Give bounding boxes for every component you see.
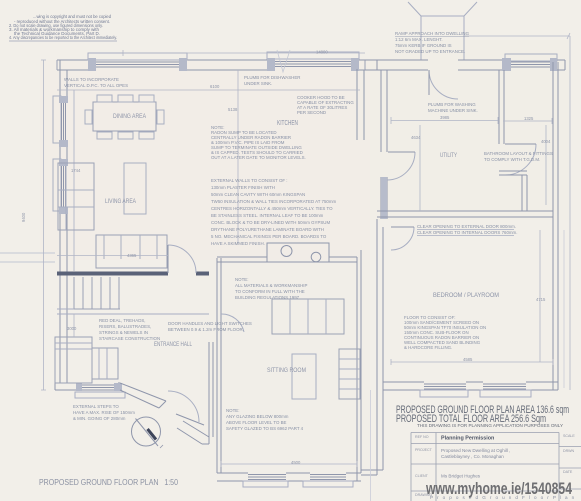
svg-text:5 NO. MECHANICAL FIXINGS PER B: 5 NO. MECHANICAL FIXINGS PER BOARD. BOAR… [211,234,327,239]
dim 4585 [391,359,553,365]
right vertical dim [569,36,571,390]
stairs lower flight [55,337,118,383]
svg-text:PER SECOND: PER SECOND [297,110,326,115]
dim 4715 vertical [539,230,541,362]
svg-text:& HARDCORE FILLING.: & HARDCORE FILLING. [404,345,452,350]
svg-text:50mm CLEAN CAVITY WITH 60mm KI: 50mm CLEAN CAVITY WITH 60mm KINGSPAN [211,192,305,197]
svg-text:NOTE:: NOTE: [235,277,248,282]
corridor south wall [361,390,383,475]
svg-text:3000: 3000 [67,326,77,331]
svg-text:CLEAR OPENING TO INTERNAL DOOR: CLEAR OPENING TO INTERNAL DOORS 760mm. [417,230,517,235]
sitting sofa [272,299,344,334]
svg-text:TW50 INSULATION & WALL TIES IN: TW50 INSULATION & WALL TIES INCORPORATED… [211,199,336,204]
bedroom bottom wall [383,382,558,397]
svg-text:BE STAINLESS STEEL. INTERNAL L: BE STAINLESS STEEL. INTERNAL LEAF TO BE … [211,213,324,218]
dark wall living/hall [57,272,168,276]
stair dim 3000 vertical [73,314,75,337]
entrance door arc [429,70,458,99]
svg-text:DATE: DATE [563,470,573,474]
svg-text:4634: 4634 [411,135,421,140]
dim 1325 [503,118,552,124]
svg-text:www.myhome.ie/1540854: www.myhome.ie/1540854 [425,479,572,498]
svg-text:5138: 5138 [228,107,238,112]
bench row under living [96,235,167,268]
svg-text:RAMP APPROACH INTO DWELLING: RAMP APPROACH INTO DWELLING [395,31,470,36]
svg-text:THIS DRAWING IS FOR PLANNING A: THIS DRAWING IS FOR PLANNING APPLICATION… [417,423,564,429]
svg-text:& MIN. GOING OF 280mm: & MIN. GOING OF 280mm [73,416,126,421]
svg-text:4365: 4365 [127,253,137,258]
utility bottom wall [377,211,553,217]
svg-text:EXTERNAL STEPS TO: EXTERNAL STEPS TO [73,404,119,409]
svg-text:ANY GLAZING BELOW 800mm: ANY GLAZING BELOW 800mm [226,414,289,419]
extension west wall [381,70,415,219]
door arc hall/sitting [221,314,244,332]
svg-text:NOT GRADED UP TO ENTRANCE.: NOT GRADED UP TO ENTRANCE. [395,49,465,54]
L wall [499,171,527,211]
svg-text:DOOR HANDLES AND LIGHT SWITCHE: DOOR HANDLES AND LIGHT SWITCHES [168,321,252,326]
utility window [505,54,557,61]
sitting room top wall [217,257,357,262]
svg-text:NOTE:: NOTE: [226,408,239,413]
svg-text:3985: 3985 [440,115,450,120]
svg-text:Castleblayney , Co. Monaghan: Castleblayney , Co. Monaghan [441,454,504,459]
svg-text:1:12 6m MAX. LENGHT.: 1:12 6m MAX. LENGHT. [395,37,443,42]
svg-text:BATHROOM LAYOUT & FITTINGS: BATHROOM LAYOUT & FITTINGS [484,151,553,156]
main building top wall [57,52,365,71]
dim 3985 [391,117,498,124]
front door leaf [176,414,204,425]
svg-text:CENTRES HORIZONTALLY & 450mm V: CENTRES HORIZONTALLY & 450mm VERTICALLY.… [211,206,333,211]
svg-text:4. Any discrepancies to be re: 4. Any discrepancies to be reported to t… [9,35,117,40]
main building left wall [0,60,74,383]
dim 4634 vertical [419,125,421,211]
svg-text:130mm PLASTER FINISH WITH: 130mm PLASTER FINISH WITH [211,185,275,190]
V mark top [277,50,290,72]
svg-text:RISERS, BALUSTRADES,: RISERS, BALUSTRADES, [99,324,151,329]
north arrow [132,417,164,448]
svg-text:VERTICAL D.P.C. TO ALL OPES: VERTICAL D.P.C. TO ALL OPES [64,83,128,88]
chimney breast [267,243,329,262]
dim 4004 vertical [545,125,547,205]
dim 4500 [221,461,357,467]
svg-text:SCALE: SCALE [563,434,575,438]
window 1 [53,96,61,143]
sitting room bottom wall [217,473,361,487]
clear opening note underlines [417,230,514,236]
svg-text:BUILDING REGULATIONS 1997: BUILDING REGULATIONS 1997 [235,295,300,300]
svg-text:4004: 4004 [541,139,551,144]
svg-text:DRYTHANE POLYURETHANE LAMINATE: DRYTHANE POLYURETHANE LAMINATE BOARD WIT… [211,227,324,232]
svg-text:Proposed New Dwelling at Oghil: Proposed New Dwelling at Oghill , [441,448,510,453]
door arc living [168,245,196,273]
bathroom door arc [505,144,536,175]
extension top dim [464,33,570,39]
svg-text:ALL MATERIALS & WORKMANSHIP: ALL MATERIALS & WORKMANSHIP [235,283,308,288]
svg-text:SAFETY GLAZED TO BS 6962 PART: SAFETY GLAZED TO BS 6962 PART 4 [226,426,304,431]
dining table [93,102,156,131]
svg-text:1325: 1325 [524,116,534,121]
dining window glazing [96,62,179,67]
svg-text:Planning Permission: Planning Permission [441,436,494,442]
kitchen window sill [267,52,359,59]
bedroom door arc [391,227,414,250]
bathroom partition [499,70,536,211]
porch left diagonal wall [120,383,166,408]
svg-text:9400: 9400 [21,212,26,222]
svg-text:4500: 4500 [291,460,301,465]
svg-text:TO COMPLY WITH T.G.D.M.: TO COMPLY WITH T.G.D.M. [484,157,540,162]
svg-text:ENTRANCE HALL: ENTRANCE HALL [154,341,192,348]
svg-text:LIVING AREA: LIVING AREA [105,198,137,205]
utility door arc [387,152,415,180]
svg-text:1744: 1744 [71,168,81,173]
ramp [408,2,477,60]
faint fold line [370,390,372,501]
svg-text:MACHINE UNDER SINK.: MACHINE UNDER SINK. [428,108,478,113]
svg-text:STRINGS & NEWELS IN: STRINGS & NEWELS IN [99,330,148,335]
porch right diagonal wall [177,421,209,444]
svg-text:HAVE A SKIMMED FINISH.: HAVE A SKIMMED FINISH. [211,241,265,246]
dining chairs bottom [97,132,112,139]
svg-text:4585: 4585 [463,357,473,362]
svg-text:BEDROOM / PLAYROOM: BEDROOM / PLAYROOM [433,292,499,299]
ground lines left [0,253,55,262]
front door arc [168,391,199,422]
room labels [105,113,499,374]
dimension texts [21,50,551,466]
svg-text:HAVE A MAX. RISE OF 150mm: HAVE A MAX. RISE OF 150mm [73,410,135,415]
svg-text:OUT AT A LATER DATE TO MONITOR: OUT AT A LATER DATE TO MONITOR LEVELS. [211,155,306,160]
svg-text:EXTERNAL WALLS TO CONSIST OF :: EXTERNAL WALLS TO CONSIST OF : [211,178,288,183]
svg-text:6100: 6100 [210,84,220,89]
hall lines [57,309,209,314]
svg-text:4715: 4715 [536,297,546,302]
area titles [396,404,569,429]
top-left notes [9,14,117,40]
extension north wall [365,54,565,99]
stairs upper flight [74,277,120,309]
svg-text:PLUMB FOR WASHING: PLUMB FOR WASHING [428,102,476,107]
svg-text:REF NO: REF NO [415,435,429,439]
sitting room east wall [357,69,364,481]
svg-text:RED DEAL, TREHADS,: RED DEAL, TREHADS, [99,318,146,323]
svg-text:BETWEEN 0.9 & 1.2m FROM FLOOR.: BETWEEN 0.9 & 1.2m FROM FLOOR. [168,327,244,332]
svg-text:DINING AREA: DINING AREA [113,113,147,120]
dim 4365 [57,255,168,257]
window 2 [53,159,61,211]
inner leaf line [73,90,75,271]
dining chairs sides [85,110,92,124]
living sofa left [58,163,94,230]
svg-text:TO CONFORM IN FULL WITH THE: TO CONFORM IN FULL WITH THE [235,289,305,294]
dim 6100 [57,89,360,91]
svg-text:DRWN: DRWN [563,449,575,453]
svg-text:CLIENT: CLIENT [415,474,429,478]
svg-text:CONC. BLOCK & TO BE DRY-LINED: CONC. BLOCK & TO BE DRY-LINED WITH 50mm … [211,220,330,225]
svg-text:75mm KERB IF GROUND IS: 75mm KERB IF GROUND IS [395,43,452,48]
subtle scan tint washes [40,60,370,260]
extension east wall [553,62,558,390]
sitting coffee table [292,354,316,399]
svg-text:WALLS TO INCORPORATE: WALLS TO INCORPORATE [64,77,119,82]
svg-text:PROJECT: PROJECT [415,448,433,452]
bottom-left wall with window [55,383,125,398]
dining chairs top [97,95,112,102]
overall top dim 14800 [123,50,365,56]
svg-text:CLEAR OPENING TO EXTERNAL DOOR: CLEAR OPENING TO EXTERNAL DOOR 800mm. [417,224,516,229]
dining window sill [88,53,187,60]
svg-text:14800: 14800 [316,50,328,55]
svg-text:STAIRCASE CONSTRUCTION: STAIRCASE CONSTRUCTION [99,336,160,341]
svg-text:SITTING ROOM: SITTING ROOM [267,367,306,374]
sitting cabinet [339,349,360,399]
svg-text:ABOVE FLOOR LEVEL TO BE: ABOVE FLOOR LEVEL TO BE [226,420,287,425]
title block [411,433,581,501]
bedroom west wall [377,219,383,390]
left vertical dim 9400 [41,60,46,390]
svg-text:Ms Bridget Hughes: Ms Bridget Hughes [441,474,481,479]
svg-text:PROPOSED GROUND FLOOR PLAN 1: PROPOSED GROUND FLOOR PLAN 1:50 [39,477,178,487]
svg-text:PLUMB FOR DISHWASHER: PLUMB FOR DISHWASHER [244,75,300,80]
kitchen extension line [237,70,239,243]
svg-text:UNDER SINK.: UNDER SINK. [244,81,272,86]
svg-text:UTILITY: UTILITY [440,152,457,159]
sitting room west wall [209,258,221,473]
living tall unit [124,163,146,214]
svg-text:KITCHEN: KITCHEN [277,120,298,127]
